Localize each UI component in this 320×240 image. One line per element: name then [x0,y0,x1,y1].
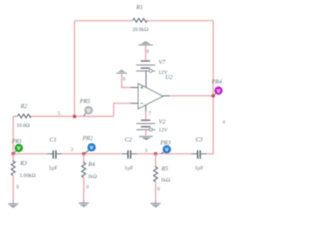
svg-text:12V: 12V [159,128,168,134]
ground below battery V2 [139,137,153,141]
svg-text:1µF: 1µF [124,166,133,172]
ground below R3 [8,200,18,208]
battery V7 [136,61,155,72]
wire R4 bottom lead [83,177,85,200]
wire op-amp plus pin stub [131,87,139,89]
svg-text:C1: C1 [50,137,57,143]
svg-text:5: 5 [58,111,61,117]
wire R5 top lead [155,154,157,166]
svg-text:3: 3 [145,148,148,154]
svg-text:0: 0 [16,185,19,191]
op-amp minus marker [140,102,143,104]
wire R2 to node 5 junction [31,115,114,117]
svg-text:C3: C3 [196,137,203,143]
svg-text:PR1: PR1 [11,139,22,145]
wire bottom rail segment 2 [62,153,121,155]
svg-text:R1: R1 [135,5,143,11]
svg-text:1µF: 1µF [195,166,204,172]
svg-text:PR4: PR4 [211,78,222,85]
wire op-amp minus pin stub [131,102,139,104]
svg-text:U2: U2 [165,75,172,81]
probe PR4 [214,87,223,96]
wire plus ground stem [122,74,131,88]
wire battery V2 to ground [145,130,147,136]
junction node 5 [73,115,77,119]
ground 0 at op-amp plus input [116,70,127,73]
svg-text:4: 4 [222,119,225,125]
wire left drop to bottom rail [12,116,14,153]
svg-text:2: 2 [71,147,74,153]
svg-text:7: 7 [149,111,152,117]
junction PR2 node [82,152,86,156]
resistor R2 [13,114,31,118]
svg-text:R5: R5 [161,167,169,173]
wire inverting input jog [114,103,131,116]
svg-text:PR2: PR2 [82,136,93,142]
svg-text:1kΩ: 1kΩ [161,178,170,184]
junction node 4 [211,94,215,98]
svg-text:1µF: 1µF [49,166,58,172]
svg-text:0: 0 [123,77,126,83]
wire bottom rail segment 1 [13,153,47,155]
svg-text:R3: R3 [19,161,27,167]
wire op-amp bottom pin [145,105,147,112]
wire ground to battery V7 [145,46,147,61]
wire bottom rail segment 3 [137,153,191,155]
svg-text:R2: R2 [20,104,28,110]
resistor R4 [82,162,86,178]
ground below R5 [151,200,161,208]
capacitor C1 [47,150,63,158]
resistor R3 [11,160,15,176]
svg-text:1kΩ: 1kΩ [88,174,97,180]
capacitor C3 [191,150,206,158]
wire left rail [74,21,76,117]
op-amp U2 triangle [138,84,163,109]
capacitor C2 [122,150,137,158]
svg-text:V2: V2 [159,119,166,125]
probe PR5 [84,107,93,116]
junction PR3 node [154,152,158,156]
wire battery V7 to op-amp top pin [145,72,147,89]
svg-text:0: 0 [157,186,160,192]
battery V2 [136,120,155,131]
probe PR3 [161,146,171,154]
resistor R5 [154,166,158,182]
ground below R4 [79,200,89,207]
svg-text:PR3: PR3 [159,141,170,147]
svg-text:R4: R4 [87,161,95,168]
wire top feedback right segment [147,20,213,22]
wire R4 top lead [83,154,85,162]
wire R3 top lead [12,154,14,161]
svg-text:10.0Ω: 10.0Ω [16,123,29,129]
svg-text:C2: C2 [125,137,132,143]
svg-text:12V: 12V [158,70,167,76]
wire R3 bottom lead [12,175,14,201]
svg-text:V7: V7 [159,60,167,66]
wire right rail [207,21,214,154]
resistor R1 [133,18,148,22]
wire R5 bottom lead [155,181,157,200]
svg-text:PR5: PR5 [79,99,90,105]
svg-text:0: 0 [146,49,149,55]
probe PR1 [14,144,23,153]
wire R2 left lead [13,115,17,117]
wire top feedback left segment [75,20,133,22]
wire output to right rail [170,95,214,97]
svg-text:20.0kΩ: 20.0kΩ [132,27,148,33]
wire op-amp output stub [163,95,170,97]
wire pin 7 to battery V2 [145,112,147,120]
junction PR1 node [11,152,15,156]
svg-text:0: 0 [86,184,89,190]
op-amp plus marker [140,86,143,89]
ground 0 above battery V7 [138,41,152,45]
svg-text:1.00kΩ: 1.00kΩ [20,173,36,179]
probe PR2 [85,144,96,154]
